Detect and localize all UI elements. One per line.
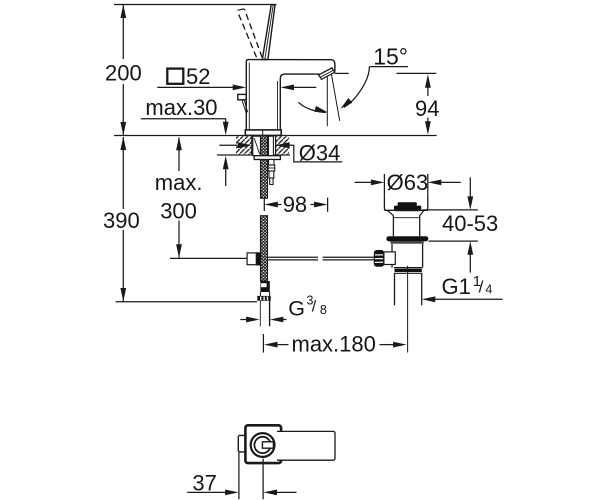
svg-text:Ø34: Ø34 [299, 141, 341, 166]
drain side knob [374, 250, 384, 267]
svg-text:/: / [312, 299, 317, 316]
svg-text:52: 52 [186, 64, 210, 89]
svg-text:G1: G1 [442, 274, 471, 299]
shank right band [269, 136, 274, 158]
svg-text:8: 8 [320, 303, 327, 317]
counter top line [114, 135, 437, 137]
drain knob arm [384, 252, 395, 265]
max30 upper arrow [225, 119, 227, 124]
drain tailpipe [394, 273, 396, 305]
dim 98 right arrow [311, 204, 316, 206]
15 deg left arc [298, 102, 326, 112]
faucet spout bottom [280, 74, 319, 130]
dim 94 line [427, 86, 429, 96]
max30 lower arrow [225, 168, 227, 186]
svg-text:94: 94 [415, 96, 439, 121]
dim max180 left tick [262, 334, 264, 353]
shank left band [253, 136, 261, 155]
top view spout rect [277, 431, 335, 460]
15 deg underline [369, 66, 408, 68]
svg-text:300: 300 [160, 198, 197, 223]
dim 52 leader left arrow [157, 86, 234, 88]
faucet handle dashed position [237, 9, 262, 57]
aerator [319, 68, 335, 79]
dim 98 left arrow [264, 202, 278, 208]
counter bottom line [217, 154, 290, 156]
dim 98 tick right [327, 198, 329, 212]
G1 1/4 arrow [435, 298, 503, 300]
drain collar [394, 267, 422, 269]
drain extension ticks [383, 174, 385, 196]
dim max180 right arrow [380, 344, 394, 346]
side tab on body [238, 94, 246, 99]
svg-text:max.180: max.180 [292, 332, 376, 357]
15 deg right arc leader [344, 67, 369, 108]
svg-text:4: 4 [485, 282, 492, 296]
drain lower body [391, 244, 393, 268]
max30 underline [141, 118, 226, 120]
supply pipe end [259, 301, 261, 327]
svg-text:15°: 15° [373, 43, 408, 69]
drain taper [388, 211, 394, 216]
mounting stud below washer [269, 160, 275, 166]
drain plug cap [398, 202, 417, 206]
dim 37 line and left arrow [187, 491, 227, 493]
svg-text:390: 390 [103, 208, 140, 233]
stream slanted line 15 deg [331, 74, 339, 121]
svg-text:max.: max. [155, 170, 203, 195]
svg-text:/: / [479, 278, 484, 297]
drain flange body [384, 196, 427, 211]
svg-text:max.30: max.30 [145, 95, 217, 120]
counter hatch right [276, 136, 289, 154]
top view circle inner [254, 437, 270, 453]
drain O-ring [386, 236, 428, 241]
faucet body inner lines [248, 63, 250, 130]
hose tee fitting [247, 253, 256, 265]
dim G38 right arrow [270, 317, 284, 323]
dim G38 left arrow [240, 319, 247, 321]
washer under counter [254, 156, 280, 160]
hose lower segment [261, 216, 268, 281]
dim 98 tick at faucet [263, 198, 265, 211]
dimension 390 line [122, 137, 124, 209]
dim O63 left arrow [355, 181, 372, 183]
dim 94 top extension line [335, 72, 349, 74]
stream vertical line [326, 76, 328, 126]
svg-text:40-53: 40-53 [442, 211, 498, 236]
dim O34 right arrow and leader [276, 142, 290, 148]
hose upper segment [261, 136, 268, 198]
drain flange bottom line [384, 209, 427, 211]
dim 37 right arrow [264, 490, 278, 496]
drain neck [392, 216, 394, 237]
svg-text:Ø63: Ø63 [387, 170, 429, 195]
dim 37 extension lines [238, 453, 240, 500]
top view left tab [238, 435, 247, 452]
dimension 200 line [122, 5, 124, 60]
hose end dark fitting [260, 281, 269, 292]
top view circle outer [251, 433, 275, 457]
svg-text:G: G [288, 297, 305, 321]
svg-text:98: 98 [283, 192, 307, 217]
pop-up rod double line [268, 256, 318, 258]
dim O63 right arrow [441, 181, 461, 183]
hose nut G38 [259, 292, 261, 296]
svg-text:200: 200 [105, 61, 142, 86]
dim O34 left arrow [219, 144, 237, 146]
drain centerline [407, 266, 409, 353]
390 bottom extension line [116, 301, 257, 303]
max300 level line [170, 257, 247, 259]
faucet body outline [246, 60, 335, 130]
dim 40-53 ref lines [423, 209, 478, 211]
label square52 symbol [167, 69, 183, 84]
top reference line [114, 4, 277, 6]
dimension max300 arrows [178, 138, 180, 172]
top view square body [245, 425, 281, 463]
top view center bar [262, 442, 273, 448]
dim max180 left arrow [264, 342, 278, 348]
base plate escutcheon [245, 130, 281, 136]
faucet handle solid [262, 4, 275, 59]
counter hatch left [236, 136, 252, 154]
dim 40-53 line [469, 177, 471, 197]
dim 52 right arrow [293, 86, 317, 88]
